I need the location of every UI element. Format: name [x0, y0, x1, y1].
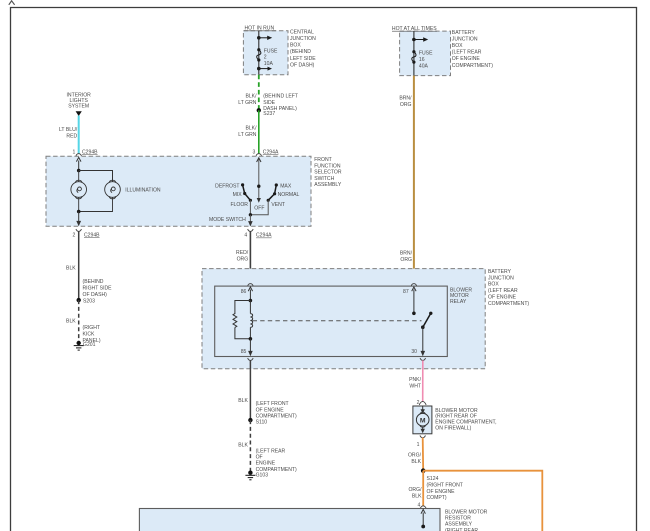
svg-text:S203: S203 [83, 299, 95, 305]
wire floor/vent to common [250, 200, 268, 215]
svg-text:86: 86 [241, 289, 247, 295]
off-page connector triangle [76, 111, 82, 116]
svg-text:BOX: BOX [290, 43, 301, 49]
svg-text:ORG: ORG [400, 257, 412, 263]
svg-text:ASSEMBLY: ASSEMBLY [314, 182, 342, 188]
box BJB fuse (battery junction box) [392, 26, 493, 284]
svg-text:1: 1 [417, 442, 420, 448]
svg-text:(BEHIND LEFT: (BEHIND LEFT [263, 94, 298, 100]
box front function selector switch assembly [46, 156, 342, 226]
node coil bottom [249, 337, 253, 341]
svg-text:OF ENGINE: OF ENGINE [488, 295, 517, 301]
svg-text:4: 4 [417, 503, 420, 509]
svg-text:SIDE: SIDE [263, 100, 275, 106]
resistor (parallel) [235, 301, 251, 315]
node resistor input [421, 525, 425, 529]
fuse F2 [257, 48, 260, 51]
svg-text:ENGINE: ENGINE [256, 461, 276, 467]
node coil top [249, 299, 253, 303]
pin 2 connector blower motor [419, 401, 426, 405]
box CJB (central junction box) [238, 26, 316, 156]
splice S110 [248, 418, 252, 422]
switch armature [429, 312, 432, 315]
svg-text:FUSE: FUSE [419, 51, 433, 57]
svg-text:FUNCTION: FUNCTION [314, 163, 341, 169]
pin 4 connector C294A [248, 229, 253, 231]
svg-text:(RIGHT FRONT: (RIGHT FRONT [427, 482, 463, 488]
wire BLK relay to S110 [249, 360, 251, 420]
contact DEFROST [241, 183, 244, 186]
wire branch to lamp 2 [79, 171, 113, 182]
splice S124 [421, 468, 426, 473]
svg-text:BLK/: BLK/ [245, 126, 257, 132]
svg-text:BRN/: BRN/ [400, 251, 413, 257]
node contact 87 [412, 312, 416, 316]
svg-text:ORG: ORG [400, 102, 412, 108]
wire BLK upper [78, 231, 80, 300]
svg-text:JUNCTION: JUNCTION [290, 36, 316, 42]
svg-text:MIX: MIX [233, 192, 243, 198]
svg-text:BLK: BLK [412, 493, 422, 499]
contact NORMAL [273, 192, 276, 195]
wire BLK dashed to G103 [249, 420, 251, 472]
svg-text:BRN/: BRN/ [399, 95, 412, 101]
svg-text:BOX: BOX [452, 43, 463, 49]
svg-text:2: 2 [264, 55, 267, 61]
lamp E1 illumination [71, 171, 87, 212]
svg-text:COMPARTMENT): COMPARTMENT) [488, 301, 529, 307]
svg-text:BLOWER MOTOR: BLOWER MOTOR [445, 509, 488, 515]
svg-text:4: 4 [244, 233, 247, 239]
wire RED/ORG [249, 231, 251, 283]
blower motor M1 [413, 406, 432, 434]
wire ORG/BLK lower [422, 471, 424, 506]
lamp E2 illumination [79, 180, 121, 211]
svg-text:OF ENGINE: OF ENGINE [256, 407, 285, 413]
svg-text:ILLUMINATION: ILLUMINATION [125, 188, 161, 194]
svg-text:BLK: BLK [411, 459, 421, 465]
svg-text:LT BLU/: LT BLU/ [59, 127, 78, 133]
svg-text:2: 2 [417, 400, 420, 406]
contact FLOOR [249, 199, 252, 202]
relay coil [249, 301, 251, 314]
ground G201 [77, 341, 81, 345]
contact MAX [275, 183, 278, 186]
svg-text:JUNCTION: JUNCTION [452, 36, 478, 42]
wiper arc right [268, 185, 276, 200]
node lamp bottom junction [77, 210, 81, 214]
contact VENT [267, 199, 270, 202]
wire BLK dashed lower [78, 300, 80, 342]
wire ORG/BLK branch right [423, 471, 542, 531]
svg-text:CENTRAL: CENTRAL [290, 29, 314, 35]
wiper arc left [243, 185, 251, 200]
ground G103 [248, 471, 252, 475]
svg-text:S237: S237 [263, 111, 275, 117]
pin 1 connector blower motor [420, 435, 425, 437]
svg-text:BATTERY: BATTERY [488, 269, 512, 275]
wire BRN/ORG [413, 76, 415, 284]
relay K1 outline [215, 286, 448, 356]
wire to pin 2 exit arrow [78, 212, 80, 223]
svg-text:C294B: C294B [84, 232, 100, 238]
svg-text:S110: S110 [256, 419, 268, 425]
svg-text:BATTERY: BATTERY [452, 30, 476, 36]
svg-text:BOX: BOX [488, 282, 499, 288]
splice S237 [257, 108, 261, 112]
svg-text:M: M [420, 417, 426, 424]
svg-text:COMPT): COMPT) [427, 495, 447, 501]
svg-text:87: 87 [403, 289, 409, 295]
wire PNK/WHT [422, 360, 424, 401]
battery junction box outline (relay) [202, 269, 485, 369]
svg-text:RED/: RED/ [236, 250, 249, 256]
svg-text:(BEHIND: (BEHIND [83, 279, 104, 285]
svg-text:BLK: BLK [238, 398, 248, 404]
svg-text:10A: 10A [264, 61, 274, 67]
svg-text:FUSE: FUSE [264, 48, 278, 54]
blower motor resistor assembly outline [139, 509, 440, 531]
pin 2 connector C294B [76, 229, 81, 231]
svg-text:OF ENGINE: OF ENGINE [452, 56, 481, 62]
svg-text:BLK/: BLK/ [245, 93, 257, 99]
svg-text:RESISTOR: RESISTOR [445, 516, 471, 522]
wire ORG/BLK upper [422, 438, 425, 471]
svg-text:NORMAL: NORMAL [278, 192, 300, 198]
svg-text:WHT: WHT [409, 384, 421, 390]
svg-text:ORG/: ORG/ [408, 453, 422, 459]
svg-text:DEFROST: DEFROST [215, 183, 239, 189]
svg-text:MODE SWITCH: MODE SWITCH [209, 217, 246, 223]
svg-text:BLK: BLK [238, 443, 248, 449]
mode switch feed wire [258, 158, 260, 199]
svg-text:ASSEMBLY: ASSEMBLY [445, 522, 473, 528]
svg-text:40A: 40A [419, 63, 429, 69]
svg-text:16: 16 [419, 57, 425, 63]
svg-text:OF ENGINE: OF ENGINE [427, 489, 456, 495]
svg-text:LT GRN: LT GRN [238, 132, 257, 138]
linkage dashed [253, 320, 422, 322]
svg-text:BLK: BLK [66, 318, 76, 324]
splice S203 [77, 298, 81, 302]
resistor assembly entry arrow [421, 510, 425, 514]
svg-text:3: 3 [252, 149, 255, 155]
wire BLK/LT GRN solid [258, 110, 260, 154]
svg-text:30: 30 [411, 349, 417, 355]
central junction box outline [243, 31, 288, 75]
battery junction box outline [400, 31, 451, 76]
relay area [202, 229, 529, 420]
node lamp top junction [77, 169, 81, 173]
node feed bottom [257, 67, 261, 71]
pin 87 entry connector [411, 284, 416, 286]
svg-text:SYSTEM: SYSTEM [68, 104, 89, 110]
svg-text:(LEFT FRONT: (LEFT FRONT [256, 401, 289, 407]
svg-text:C294A: C294A [256, 233, 272, 239]
svg-text:(LEFT REAR: (LEFT REAR [256, 448, 286, 454]
svg-text:OF DASH): OF DASH) [83, 292, 108, 298]
pin 30 exit connector [420, 358, 425, 360]
svg-text:ORG/: ORG/ [408, 487, 422, 493]
svg-text:FLOOR: FLOOR [230, 202, 248, 208]
pin 85 exit connector [248, 358, 253, 360]
svg-text:C294A: C294A [263, 149, 279, 155]
svg-text:G201: G201 [83, 342, 96, 348]
svg-text:OF DASH): OF DASH) [290, 62, 315, 68]
node wiper common [257, 185, 260, 188]
svg-text:RELAY: RELAY [450, 299, 467, 305]
pin 85 [249, 339, 251, 353]
svg-text:S124: S124 [427, 476, 439, 482]
node feed top [257, 36, 261, 40]
wire LT BLU/RED [78, 116, 80, 154]
svg-text:OFF: OFF [254, 205, 264, 211]
svg-text:(BEHIND: (BEHIND [290, 49, 311, 55]
wire bus inside BJB [413, 31, 415, 75]
svg-text:C294B: C294B [82, 149, 98, 155]
wire to pin 4 exit arrow [249, 215, 251, 223]
pin 30 [422, 327, 424, 353]
svg-text:RIGHT SIDE: RIGHT SIDE [83, 286, 113, 292]
svg-text:ORG: ORG [237, 257, 249, 263]
svg-text:PNK/: PNK/ [409, 377, 421, 383]
svg-text:(LEFT REAR: (LEFT REAR [452, 50, 482, 56]
svg-text:85: 85 [241, 349, 247, 355]
pin 1 entry arrow [76, 157, 81, 161]
svg-text:RED: RED [66, 133, 77, 139]
svg-text:1: 1 [73, 149, 76, 155]
svg-text:VENT: VENT [271, 202, 285, 208]
node feed [412, 38, 416, 42]
pin 86 entry connector [248, 284, 253, 286]
contact MIX [243, 192, 246, 195]
svg-text:2: 2 [73, 232, 76, 238]
svg-text:KICK: KICK [83, 331, 95, 337]
svg-text:(RIGHT: (RIGHT [83, 325, 101, 331]
node mode switch output [249, 213, 252, 216]
svg-text:OF: OF [256, 455, 263, 461]
svg-text:JUNCTION: JUNCTION [488, 275, 514, 281]
bottom branches [139, 398, 542, 531]
svg-text:SELECTOR: SELECTOR [314, 170, 342, 176]
svg-text:LT GRN: LT GRN [238, 100, 257, 106]
wire bus inside CJB [258, 31, 260, 75]
svg-text:BLK: BLK [66, 265, 76, 271]
svg-text:FRONT: FRONT [314, 157, 332, 163]
svg-text:LEFT SIDE: LEFT SIDE [290, 56, 316, 62]
fuse F16 [412, 50, 415, 53]
svg-text:G103: G103 [256, 473, 269, 479]
left branch [59, 92, 112, 350]
wire BLK/LT GRN dashed [258, 75, 260, 111]
svg-text:(LEFT REAR: (LEFT REAR [488, 288, 518, 294]
switch assembly outline [46, 156, 311, 226]
svg-text:MAX: MAX [280, 183, 292, 189]
svg-text:SWITCH: SWITCH [314, 176, 334, 182]
svg-text:COMPARTMENT): COMPARTMENT) [452, 63, 493, 69]
svg-text:ON FIREWALL): ON FIREWALL) [435, 425, 471, 431]
